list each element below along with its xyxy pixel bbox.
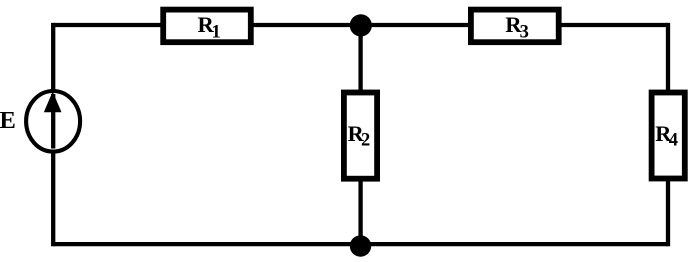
voltage source E circle xyxy=(26,91,80,152)
svg-text:1: 1 xyxy=(212,22,221,42)
wire left vertical xyxy=(51,23,55,246)
wire bottom horizontal xyxy=(53,242,668,246)
svg-text:E: E xyxy=(0,107,16,134)
wire top horizontal xyxy=(53,23,668,27)
node junction top xyxy=(350,14,372,36)
node junction bottom xyxy=(350,235,371,256)
resistor R1 xyxy=(163,10,251,43)
wire right vertical lower (R4 bottom to bottom rail) xyxy=(666,179,670,247)
resistor R3 xyxy=(471,10,559,43)
wire right vertical upper (R3 to R4 top) xyxy=(666,23,670,93)
svg-text:4: 4 xyxy=(669,131,678,151)
wire R2 bottom to node B xyxy=(358,179,362,245)
svg-text:3: 3 xyxy=(520,22,529,42)
voltage source arrowhead xyxy=(44,92,62,113)
resistor R4 xyxy=(652,93,685,179)
voltage source shaft xyxy=(51,94,55,149)
wire node A to R2 top xyxy=(358,25,362,93)
resistor R2 xyxy=(344,93,377,179)
svg-text:2: 2 xyxy=(361,131,370,151)
